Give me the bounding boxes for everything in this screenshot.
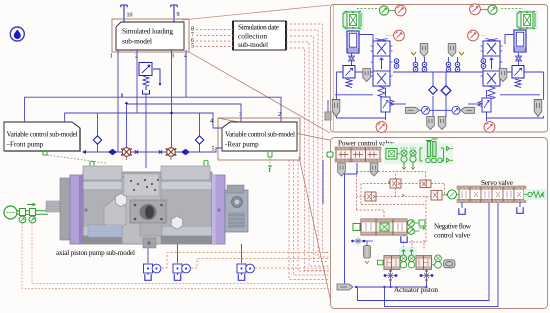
svg-text:Negative flow: Negative flow [434, 223, 472, 231]
svg-text:1: 1 [110, 54, 113, 60]
svg-text:-Rear pump: -Rear pump [225, 141, 259, 149]
svg-text:5: 5 [191, 44, 194, 50]
svg-text:–Front pump: –Front pump [6, 141, 44, 149]
svg-text:9: 9 [177, 12, 180, 18]
svg-text:Variable control sub-model: Variable control sub-model [7, 131, 78, 139]
svg-text:Variable control sub-model: Variable control sub-model [225, 131, 295, 139]
svg-text:1: 1 [268, 168, 271, 174]
svg-text:3: 3 [239, 112, 242, 118]
svg-text:control valve: control valve [434, 232, 470, 240]
svg-text:sub-model: sub-model [238, 40, 268, 49]
svg-text:Simulation date: Simulation date [238, 23, 279, 32]
svg-text:4: 4 [184, 54, 187, 60]
svg-text:sub-model: sub-model [122, 37, 152, 46]
svg-text:axial piston pump sub-model: axial piston pump sub-model [56, 249, 135, 257]
svg-text:10: 10 [127, 13, 133, 19]
svg-text:Simulated loading: Simulated loading [122, 27, 173, 36]
svg-text:2: 2 [135, 54, 138, 60]
